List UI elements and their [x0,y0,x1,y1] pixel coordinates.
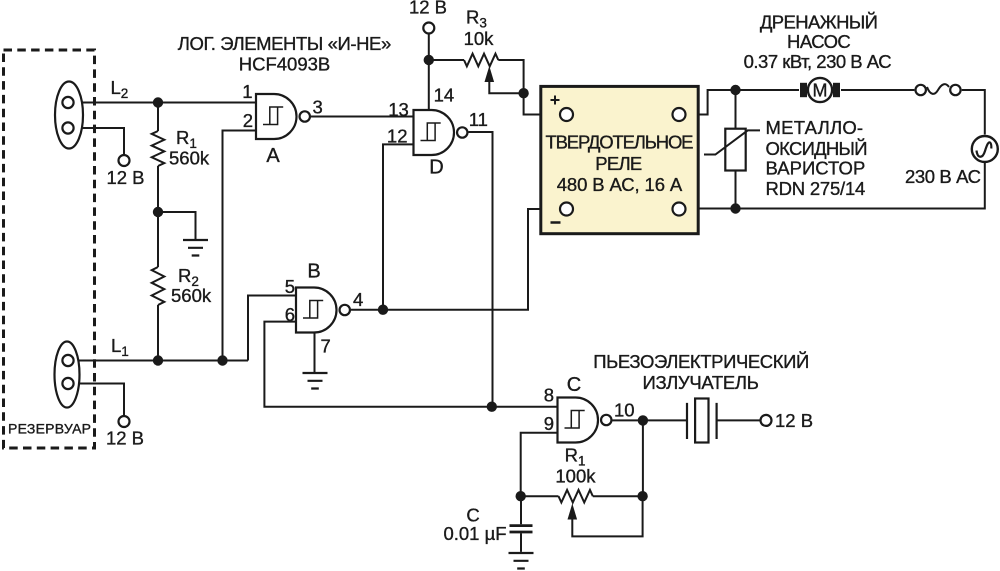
svg-text:HCF4093B: HCF4093B [239,54,331,75]
svg-text:12 В: 12 В [106,428,144,449]
svg-text:10k: 10k [464,28,495,49]
svg-text:МЕТАЛЛО-: МЕТАЛЛО- [766,117,864,138]
svg-text:L1: L1 [111,335,129,359]
svg-text:A: A [266,145,280,167]
svg-text:14: 14 [434,85,455,106]
svg-text:12: 12 [387,126,408,147]
svg-text:ДРЕНАЖНЫЙ: ДРЕНАЖНЫЙ [760,12,878,33]
svg-text:9: 9 [544,413,554,434]
svg-text:ПЬЕЗОЭЛЕКТРИЧЕСКИЙ: ПЬЕЗОЭЛЕКТРИЧЕСКИЙ [593,351,809,372]
svg-text:R3: R3 [466,7,487,31]
svg-text:D: D [429,157,443,179]
svg-text:560k: 560k [169,148,210,169]
svg-text:ТВЕРДОТЕЛЬНОЕ: ТВЕРДОТЕЛЬНОЕ [546,132,694,153]
svg-text:RDN 275/14: RDN 275/14 [766,178,866,199]
svg-text:5: 5 [285,276,295,297]
svg-text:РЕЛЕ: РЕЛЕ [595,153,642,174]
svg-text:12 В: 12 В [409,0,447,18]
svg-text:0.01 µF: 0.01 µF [443,523,506,544]
svg-text:РЕЗЕРВУАР: РЕЗЕРВУАР [8,421,91,437]
svg-text:13: 13 [388,99,409,120]
svg-text:ВАРИСТОР: ВАРИСТОР [766,158,866,179]
svg-text:12 В: 12 В [106,167,144,188]
svg-text:1: 1 [242,81,252,102]
svg-text:230 В АС: 230 В АС [905,166,981,187]
svg-text:НАСОС: НАСОС [787,31,851,52]
svg-text:6: 6 [285,304,295,325]
svg-text:2: 2 [243,110,253,131]
svg-text:ОКСИДНЫЙ: ОКСИДНЫЙ [766,138,868,159]
svg-text:C: C [567,374,581,396]
svg-text:4: 4 [353,289,363,310]
svg-text:8: 8 [544,385,554,406]
svg-text:0.37 кВт, 230 В АС: 0.37 кВт, 230 В АС [744,51,892,72]
svg-text:M: M [813,81,828,101]
svg-text:480 В АС, 16 А: 480 В АС, 16 А [557,174,683,195]
svg-text:ЛОГ. ЭЛЕМЕНТЫ «И-НЕ»: ЛОГ. ЭЛЕМЕНТЫ «И-НЕ» [178,33,392,54]
svg-text:3: 3 [313,97,323,118]
svg-text:560k: 560k [171,285,212,306]
svg-text:ИЗЛУЧАТЕЛЬ: ИЗЛУЧАТЕЛЬ [643,372,759,393]
svg-text:12 В: 12 В [775,410,813,431]
svg-text:11: 11 [469,109,488,130]
svg-text:7: 7 [321,336,331,357]
svg-text:L2: L2 [111,77,129,101]
svg-text:B: B [307,261,320,283]
svg-text:10: 10 [614,400,635,421]
svg-text:100k: 100k [555,466,596,487]
